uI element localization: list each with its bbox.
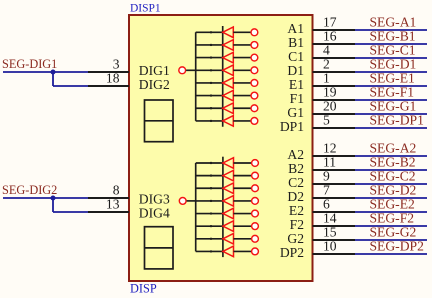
pin 8 (DIG3) xyxy=(88,183,129,198)
LED segment SEG-A2 xyxy=(196,158,259,169)
seven-segment digit glyph xyxy=(145,100,174,142)
pin 18 (DIG2) xyxy=(88,71,129,86)
svg-text:C1: C1 xyxy=(288,49,304,64)
svg-text:SEG-G1: SEG-G1 xyxy=(370,98,417,113)
svg-text:13: 13 xyxy=(106,197,120,212)
LED segment SEG-C1 xyxy=(196,52,258,63)
svg-text:F1: F1 xyxy=(290,91,304,106)
LED segment SEG-D1 xyxy=(196,65,258,76)
svg-text:17: 17 xyxy=(323,15,337,30)
svg-text:16: 16 xyxy=(323,29,337,44)
wire net SEG-D2 xyxy=(355,182,427,198)
wire net SEG-G1 xyxy=(355,98,427,114)
pin 5 (DP1) xyxy=(280,113,355,135)
svg-text:2: 2 xyxy=(323,57,330,72)
svg-text:D1: D1 xyxy=(287,63,304,78)
junction xyxy=(51,196,56,201)
LED segment SEG-G2 xyxy=(196,233,259,244)
pin 10 (DP2) xyxy=(280,239,355,261)
wire net SEG-DIG2 xyxy=(2,183,88,212)
svg-text:SEG-F2: SEG-F2 xyxy=(370,210,415,225)
seven-segment digit glyph xyxy=(145,227,174,269)
svg-text:SEG-DP1: SEG-DP1 xyxy=(370,112,424,127)
svg-text:10: 10 xyxy=(323,239,337,254)
svg-text:SEG-D2: SEG-D2 xyxy=(370,182,417,197)
LED segment SEG-F1 xyxy=(196,90,258,101)
svg-text:11: 11 xyxy=(323,155,336,170)
svg-text:SEG-D1: SEG-D1 xyxy=(370,56,417,71)
svg-text:14: 14 xyxy=(323,211,337,226)
LED segment SEG-F2 xyxy=(196,221,259,232)
svg-text:5: 5 xyxy=(323,113,330,128)
wire net SEG-F2 xyxy=(355,210,427,226)
wire net SEG-B1 xyxy=(355,28,427,44)
svg-text:3: 3 xyxy=(113,57,120,72)
svg-text:DIG1: DIG1 xyxy=(139,63,170,78)
LED segment SEG-E1 xyxy=(196,78,258,89)
svg-text:A2: A2 xyxy=(287,147,304,162)
svg-text:C2: C2 xyxy=(288,175,304,190)
svg-text:DISP1: DISP1 xyxy=(130,2,161,14)
svg-text:B2: B2 xyxy=(288,161,304,176)
svg-text:F2: F2 xyxy=(290,217,305,232)
svg-text:DISP: DISP xyxy=(130,282,157,296)
junction xyxy=(51,70,56,75)
LED segment SEG-A1 xyxy=(196,27,258,38)
svg-text:DIG3: DIG3 xyxy=(139,191,170,206)
wire net SEG-DIG1 xyxy=(2,57,88,86)
svg-text:G2: G2 xyxy=(287,231,304,246)
LED segment SEG-DP1 xyxy=(196,116,258,127)
svg-text:SEG-G2: SEG-G2 xyxy=(370,224,417,239)
LED segment SEG-C2 xyxy=(196,183,259,194)
svg-text:SEG-E2: SEG-E2 xyxy=(370,196,416,211)
pin 16 (B1) xyxy=(288,29,355,51)
wire net SEG-E2 xyxy=(355,196,427,212)
svg-text:SEG-A2: SEG-A2 xyxy=(370,140,417,155)
pin 15 (G2) xyxy=(287,225,355,247)
svg-text:15: 15 xyxy=(323,225,337,240)
pin 11 (B2) xyxy=(288,155,355,177)
anode bus xyxy=(195,32,197,121)
svg-text:E1: E1 xyxy=(289,77,304,92)
wire net SEG-A1 xyxy=(355,14,427,30)
component body DISP1 xyxy=(129,15,313,281)
pin 1 (E1) xyxy=(289,71,355,93)
svg-text:DP2: DP2 xyxy=(280,245,304,260)
svg-text:1: 1 xyxy=(323,71,330,86)
pin 3 (DIG1) xyxy=(88,57,129,72)
pin 12 (A2) xyxy=(287,141,355,163)
wire net SEG-F1 xyxy=(355,84,427,100)
svg-text:19: 19 xyxy=(323,85,337,100)
svg-text:DP1: DP1 xyxy=(280,119,304,134)
pin 20 (G1) xyxy=(287,99,355,121)
LED segment SEG-E2 xyxy=(196,208,259,219)
anode bus xyxy=(195,163,197,251)
svg-text:6: 6 xyxy=(323,197,330,212)
svg-text:G1: G1 xyxy=(287,105,304,120)
pin 2 (D1) xyxy=(287,57,355,79)
wire net SEG-C1 xyxy=(355,42,427,58)
svg-text:SEG-A1: SEG-A1 xyxy=(370,14,417,29)
wire net SEG-D1 xyxy=(355,56,427,72)
wire net SEG-E1 xyxy=(355,70,427,86)
cathode bar xyxy=(222,157,224,257)
common anode pin circle DIG1 xyxy=(179,67,196,74)
wire net SEG-DP2 xyxy=(355,238,427,254)
svg-text:SEG-C1: SEG-C1 xyxy=(370,42,416,57)
svg-text:12: 12 xyxy=(323,141,337,156)
svg-text:8: 8 xyxy=(113,183,120,198)
svg-text:SEG-F1: SEG-F1 xyxy=(370,84,415,99)
svg-text:E2: E2 xyxy=(289,203,304,218)
wire net SEG-DP1 xyxy=(355,112,427,128)
svg-text:A1: A1 xyxy=(287,21,304,36)
wire net SEG-C2 xyxy=(355,168,427,184)
pin 9 (C2) xyxy=(288,169,355,191)
LED segment SEG-DP2 xyxy=(196,246,259,257)
svg-text:SEG-C2: SEG-C2 xyxy=(370,168,416,183)
pin 7 (D2) xyxy=(287,183,355,205)
svg-text:20: 20 xyxy=(323,99,337,114)
LED segment SEG-G1 xyxy=(196,103,258,114)
svg-text:DIG2: DIG2 xyxy=(139,77,170,92)
svg-text:7: 7 xyxy=(323,183,330,198)
pin 17 (A1) xyxy=(287,15,355,37)
svg-text:4: 4 xyxy=(323,43,330,58)
pin 19 (F1) xyxy=(290,85,355,107)
pin 13 (DIG4) xyxy=(88,197,129,212)
svg-text:D2: D2 xyxy=(287,189,304,204)
svg-text:18: 18 xyxy=(106,71,120,86)
LED segment SEG-B1 xyxy=(196,40,258,51)
svg-text:SEG-B2: SEG-B2 xyxy=(370,154,416,169)
svg-text:SEG-B1: SEG-B1 xyxy=(370,28,416,43)
svg-text:SEG-DP2: SEG-DP2 xyxy=(370,238,425,253)
pin 6 (E2) xyxy=(289,197,355,219)
svg-text:SEG-DIG2: SEG-DIG2 xyxy=(2,183,57,197)
wire net SEG-B2 xyxy=(355,154,427,170)
svg-text:B1: B1 xyxy=(288,35,304,50)
svg-text:SEG-DIG1: SEG-DIG1 xyxy=(2,57,57,71)
common anode pin circle DIG3 xyxy=(179,198,195,205)
LED segment SEG-B2 xyxy=(196,170,259,181)
svg-text:DIG4: DIG4 xyxy=(139,205,170,220)
wire net SEG-G2 xyxy=(355,224,427,240)
svg-text:SEG-E1: SEG-E1 xyxy=(370,70,415,85)
pin 14 (F2) xyxy=(290,211,355,233)
cathode bar xyxy=(222,26,224,127)
pin 4 (C1) xyxy=(288,43,355,65)
svg-text:9: 9 xyxy=(323,169,330,184)
LED segment SEG-D2 xyxy=(196,196,259,207)
wire net SEG-A2 xyxy=(355,140,427,156)
